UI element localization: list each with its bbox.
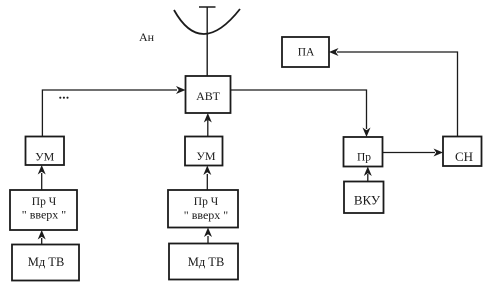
block Пр Ч "вверх" middle xyxy=(168,190,238,228)
wire СН to ПА (up then left) xyxy=(337,52,458,137)
block УМ middle (УМ2) xyxy=(185,137,223,166)
wire Мд ТВ left to Пр Ч left xyxy=(41,238,43,245)
svg-text:Пр Ч: Пр Ч xyxy=(32,196,57,208)
wire ВКУ to Пр xyxy=(367,174,369,182)
wire Пр Ч left to УМ left xyxy=(41,173,43,190)
arrowhead into Пр Ч left bottom xyxy=(38,230,46,240)
svg-text:Мд ТВ: Мд ТВ xyxy=(28,255,65,269)
wire УМ1 to АВТ (up then right) xyxy=(42,90,177,137)
svg-text:Ан: Ан xyxy=(139,30,155,44)
block ВКУ xyxy=(344,182,384,214)
arrowhead into УМ left bottom xyxy=(38,165,46,175)
svg-text:" вверх ": " вверх " xyxy=(22,208,66,222)
arrowhead into Пр top xyxy=(363,128,371,138)
wire Пр Ч middle to УМ middle xyxy=(206,174,208,190)
svg-text:ПА: ПА xyxy=(298,47,315,59)
block Пр Ч "вверх" left xyxy=(10,190,77,230)
wire Мд ТВ middle to Пр Ч middle xyxy=(207,236,209,244)
wire АВТ to Пр (right then down) xyxy=(231,90,367,129)
arrowhead into Пр Ч middle bottom xyxy=(204,228,212,238)
block Пр xyxy=(344,137,383,167)
arrowhead into АВТ bottom xyxy=(204,113,212,123)
block СН xyxy=(443,137,482,167)
svg-text:УМ: УМ xyxy=(35,150,54,164)
arrowhead into АВТ left xyxy=(176,86,186,94)
ellipsis dots (omitted channels) xyxy=(59,97,61,99)
arrowhead into Пр bottom xyxy=(364,167,372,177)
antenna feed bar xyxy=(199,6,216,8)
wire Пр to СН xyxy=(383,152,436,154)
antenna dish xyxy=(174,9,240,34)
block УМ left (УМ1) xyxy=(26,137,65,166)
svg-text:Пр: Пр xyxy=(357,152,371,164)
arrowhead into УМ middle bottom xyxy=(203,166,211,176)
svg-text:" вверх ": " вверх " xyxy=(184,208,228,222)
svg-text:АВТ: АВТ xyxy=(196,89,221,103)
block АВТ xyxy=(186,76,231,113)
svg-text:ВКУ: ВКУ xyxy=(354,193,381,208)
arrowhead into СН left xyxy=(434,149,444,157)
svg-text:СН: СН xyxy=(455,149,473,164)
block ПА xyxy=(282,37,329,67)
block Мд ТВ left xyxy=(12,245,79,281)
wire УМ2 to АВТ (vertical) xyxy=(207,120,209,137)
arrowhead into ПА right xyxy=(329,48,339,56)
svg-text:Пр Ч: Пр Ч xyxy=(194,196,219,208)
svg-text:УМ: УМ xyxy=(196,149,215,163)
block Мд ТВ middle xyxy=(169,244,238,280)
svg-text:Мд ТВ: Мд ТВ xyxy=(188,255,225,269)
antenna mast wire xyxy=(206,7,208,76)
